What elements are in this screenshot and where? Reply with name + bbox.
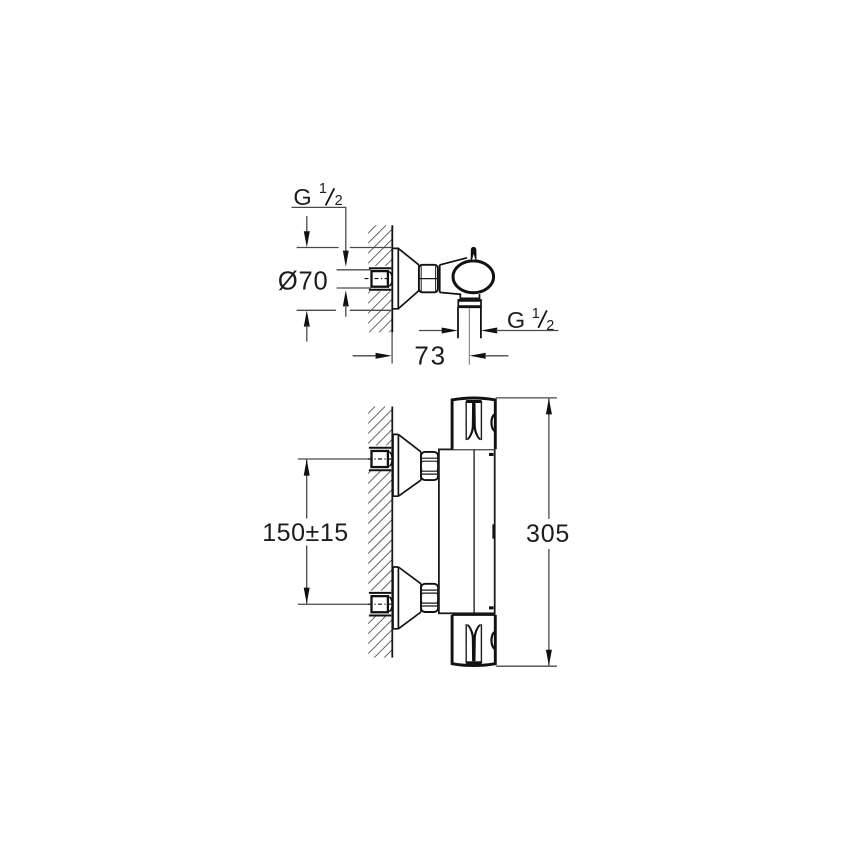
union hex nut [419,265,438,293]
top cap side lens [491,414,494,431]
halo around inlet square [366,266,391,291]
halo around lower square [366,591,391,616]
body neck [440,258,467,295]
outlet collar [460,294,479,298]
G1/2 row right: left segment + arrow [419,330,443,332]
wall hatch [368,407,392,658]
leader to thread [345,207,347,252]
svg-text:1: 1 [319,181,327,197]
305 down arrow [546,650,552,666]
lower escutcheon rim [393,567,398,629]
valve body rectangle [439,449,495,613]
svg-text:1: 1 [532,306,540,322]
label G 1/2 top-left [293,181,342,210]
305 bottom extension [496,665,557,667]
wall face extension line [391,332,393,363]
halo around upper square [366,445,391,470]
G1/2 row right: right arrow + segment [481,328,497,334]
body right bulge [492,524,494,538]
svg-text:2: 2 [546,318,554,334]
escutcheon cone [398,248,419,308]
fitting centerline [365,278,392,280]
bottom cap outline [452,615,495,666]
top cap outline [452,398,495,449]
svg-text:G: G [507,307,525,333]
svg-text:150±15: 150±15 [262,519,349,547]
escutcheon rim [392,248,398,308]
150 up arrow [304,459,310,475]
handle knob [471,247,477,260]
bottom cap groove [466,624,481,664]
top cap groove [466,400,481,440]
upper inlet square [372,451,388,467]
svg-text:73: 73 [414,340,447,370]
lower escutcheon cone [398,567,421,629]
upper escutcheon cone [398,434,421,496]
valve body (ellipse) [453,261,494,293]
150 dim line upper part [306,460,308,519]
305 dim line [548,398,550,519]
inlet square fitting [372,271,388,287]
lower hole edge lines [369,592,391,594]
thread edge extension lines [337,269,371,271]
73 row: left segment + arrow to wall [353,355,378,357]
upper escutcheon rim [393,434,398,496]
73 row: right arrow + segment [470,353,486,359]
body bottom tick [489,606,494,609]
svg-text:Ø70: Ø70 [278,267,329,295]
upper hole edge lines [369,447,391,449]
dia70 down arrow [306,216,308,233]
upper centerline [298,458,370,460]
305 top extension [496,397,557,399]
150 down arrow [304,588,310,604]
thread up-arrow [343,290,349,306]
lower inlet square [372,596,388,612]
svg-text:305: 305 [526,520,570,548]
bottom cap side lens [491,632,494,649]
dia70 top extension line [297,247,339,249]
wall face line [391,225,393,332]
lower centerline [298,603,370,605]
lower union nut [421,584,438,612]
lower fitting round tip [389,597,392,611]
leader arrowhead down [343,251,349,267]
body top tick [489,453,494,456]
305 up arrow [546,398,552,414]
outlet pipe [457,307,459,338]
fitting round tip [389,272,392,286]
upper fitting round tip [389,452,392,466]
label G 1/2 right [507,306,554,334]
body split line [473,449,475,613]
pipe centerline [468,308,470,365]
wall hole edge lines [369,267,391,269]
upper union nut [421,452,438,480]
wall face line [391,407,393,658]
dia70 bottom extension line [297,309,336,311]
wall hatch [368,225,392,332]
dia70 up arrow [304,310,310,326]
outlet nut [458,300,481,307]
bottom cap top edge [452,614,495,616]
label underline [292,206,347,208]
svg-text:G: G [293,184,311,210]
washer face [439,265,441,293]
150 dim line lower part [306,546,308,604]
